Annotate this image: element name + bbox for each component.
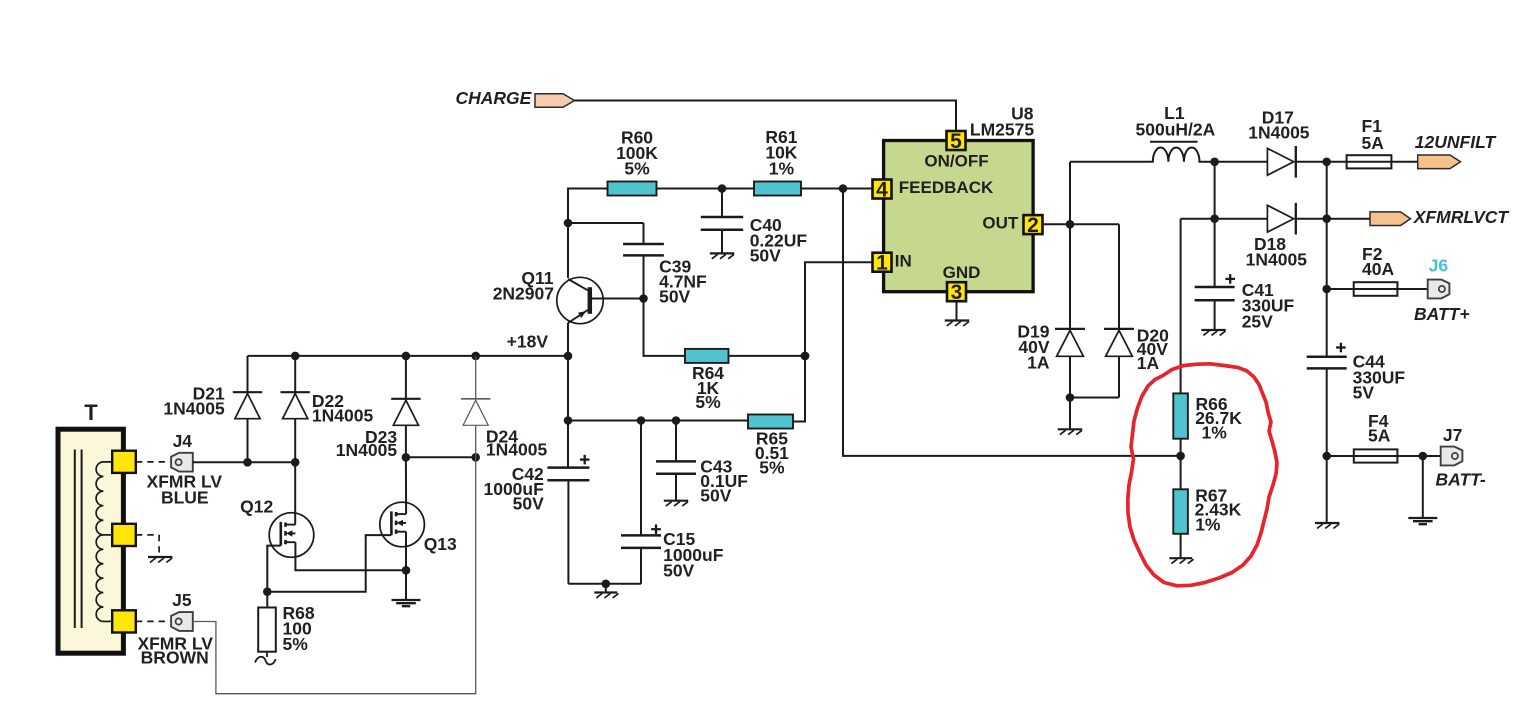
svg-text:+18V: +18V [507, 331, 549, 351]
svg-text:J6: J6 [1429, 256, 1449, 276]
svg-text:40A: 40A [1362, 259, 1394, 279]
svg-text:12UNFILT: 12UNFILT [1415, 132, 1497, 152]
svg-text:FEEDBACK: FEEDBACK [899, 178, 994, 197]
svg-text:5V: 5V [1353, 382, 1375, 402]
svg-text:50V: 50V [663, 560, 694, 580]
svg-text:1%: 1% [769, 158, 795, 178]
svg-text:1N4005: 1N4005 [486, 440, 548, 460]
svg-text:1A: 1A [1027, 353, 1050, 373]
svg-text:Q13: Q13 [424, 534, 457, 554]
svg-text:LM2575: LM2575 [970, 119, 1034, 139]
svg-text:BROWN: BROWN [141, 647, 209, 667]
svg-text:50V: 50V [659, 287, 690, 307]
svg-text:50V: 50V [513, 493, 544, 513]
svg-text:5%: 5% [624, 158, 650, 178]
svg-text:1%: 1% [1195, 514, 1221, 534]
svg-text:25V: 25V [1242, 311, 1273, 331]
svg-text:5%: 5% [283, 634, 309, 654]
svg-text:BATT+: BATT+ [1414, 304, 1470, 324]
svg-text:1N4005: 1N4005 [312, 405, 374, 425]
svg-text:1N4005: 1N4005 [1246, 250, 1308, 270]
svg-text:5%: 5% [759, 457, 785, 477]
svg-text:J7: J7 [1443, 425, 1462, 445]
svg-text:1A: 1A [1137, 353, 1160, 373]
svg-text:1%: 1% [1202, 422, 1228, 442]
svg-text:1N4005: 1N4005 [1248, 123, 1310, 143]
svg-text:J4: J4 [173, 431, 193, 451]
svg-text:5A: 5A [1368, 425, 1391, 445]
svg-text:XFMRLVCT: XFMRLVCT [1413, 207, 1510, 227]
svg-text:5%: 5% [695, 392, 721, 412]
svg-text:1N4005: 1N4005 [163, 399, 225, 419]
svg-text:J5: J5 [172, 590, 192, 610]
svg-text:Q12: Q12 [240, 497, 273, 517]
svg-text:GND: GND [943, 263, 981, 282]
svg-text:BLUE: BLUE [161, 488, 209, 508]
svg-text:500uH/2A: 500uH/2A [1136, 119, 1216, 139]
svg-text:5A: 5A [1362, 133, 1385, 153]
svg-text:T: T [84, 400, 98, 425]
svg-text:IN: IN [895, 252, 912, 271]
svg-text:OUT: OUT [982, 214, 1019, 233]
svg-text:BATT-: BATT- [1436, 470, 1486, 490]
svg-text:ON/OFF: ON/OFF [924, 151, 988, 170]
svg-text:3: 3 [951, 281, 963, 304]
svg-text:1N4005: 1N4005 [336, 440, 398, 460]
svg-text:1: 1 [876, 252, 888, 275]
svg-text:2: 2 [1027, 214, 1039, 237]
svg-text:4: 4 [876, 178, 888, 201]
svg-text:2N2907: 2N2907 [493, 284, 554, 304]
svg-text:CHARGE: CHARGE [456, 88, 533, 108]
svg-text:50V: 50V [750, 246, 781, 266]
svg-text:5: 5 [950, 130, 962, 153]
svg-text:50V: 50V [700, 486, 731, 506]
